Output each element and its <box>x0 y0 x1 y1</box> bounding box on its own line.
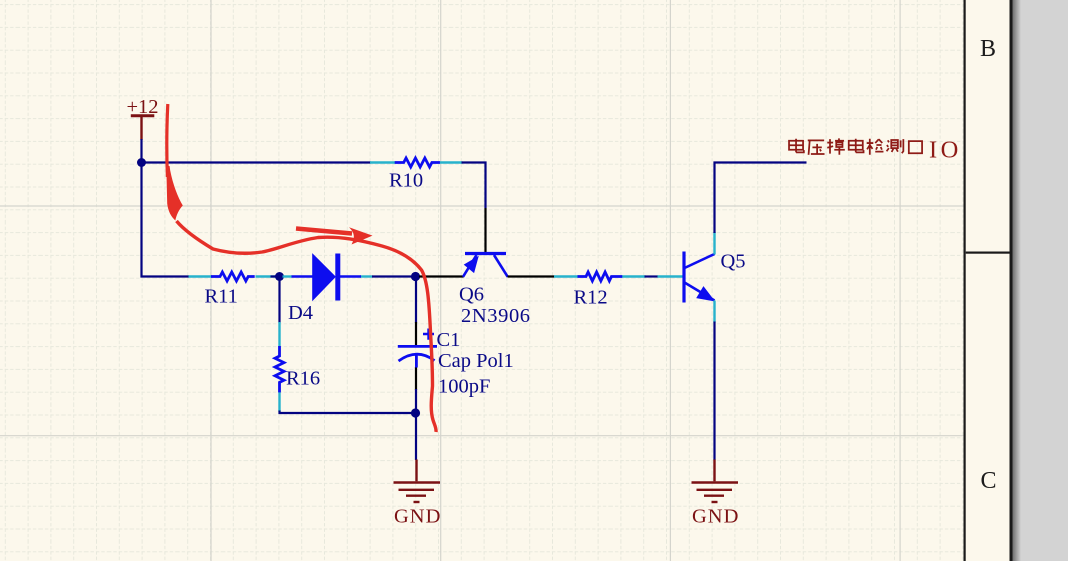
wire node A to R11 <box>142 163 190 277</box>
wire C1 to node D <box>415 389 417 413</box>
wire node A to R10 <box>142 161 372 163</box>
svg-text:R16: R16 <box>286 368 320 390</box>
svg-text:GND: GND <box>692 506 739 528</box>
svg-text:R10: R10 <box>389 170 423 192</box>
svg-text:R11: R11 <box>205 286 238 308</box>
pin Q5 collector <box>713 232 715 255</box>
node A junction <box>137 158 146 167</box>
capacitor C1 <box>398 322 437 390</box>
svg-text:Q6: Q6 <box>459 284 484 306</box>
pin Q6 base (vertical black) <box>484 208 486 253</box>
wire R12 to Q5 base <box>645 275 659 277</box>
wire node C to C1 <box>415 277 417 324</box>
resistor R12 <box>554 272 646 281</box>
wire R16 to node D <box>280 411 413 414</box>
pin Q6 emitter (left black) <box>419 275 464 277</box>
transistor Q6 <box>463 254 508 277</box>
annotation arrow right <box>296 227 373 244</box>
svg-text:2N3906: 2N3906 <box>461 305 531 327</box>
annotation flow curve <box>177 221 437 432</box>
svg-text:C: C <box>981 468 997 494</box>
svg-text:100pF: 100pF <box>438 376 490 398</box>
net label 电压掉电检测口IO <box>789 138 922 154</box>
wire D4 to node C <box>372 275 412 277</box>
transistor Q5 <box>684 252 715 303</box>
wire node D to GND1 <box>415 413 417 460</box>
diode D4 <box>283 254 373 301</box>
svg-text:B: B <box>980 36 996 62</box>
svg-text:R12: R12 <box>574 287 608 309</box>
wire node B to R16 <box>278 277 280 324</box>
svg-text:GND: GND <box>394 506 441 528</box>
node C junction <box>411 272 420 281</box>
wire R11 to node B <box>271 275 278 277</box>
svg-text:IO: IO <box>929 137 962 164</box>
svg-text:Cap Pol1: Cap Pol1 <box>438 350 514 372</box>
svg-text:D4: D4 <box>288 302 313 324</box>
node D junction <box>411 408 420 417</box>
pin Q5 emitter <box>713 301 715 323</box>
power symbol +12 <box>131 116 155 140</box>
resistor R16 <box>275 322 284 412</box>
node B junction <box>275 272 284 281</box>
pin Q5 base <box>658 275 683 277</box>
svg-text:+12: +12 <box>127 96 159 118</box>
power symbol GND2 <box>692 460 739 503</box>
wire +12 to node A <box>140 139 142 160</box>
svg-text:Q5: Q5 <box>721 251 746 273</box>
resistor R10 <box>370 158 463 167</box>
svg-text:C1: C1 <box>437 329 461 351</box>
power symbol GND1 <box>394 460 441 503</box>
resistor R11 <box>189 272 276 281</box>
wire Q5 collector to net label <box>715 163 807 234</box>
pin Q6 collector (right black) <box>508 275 555 277</box>
wire R10 to Q6 base corner <box>462 163 486 209</box>
annotation arrow down <box>166 104 183 221</box>
wire Q5 emitter to GND2 <box>713 322 715 461</box>
